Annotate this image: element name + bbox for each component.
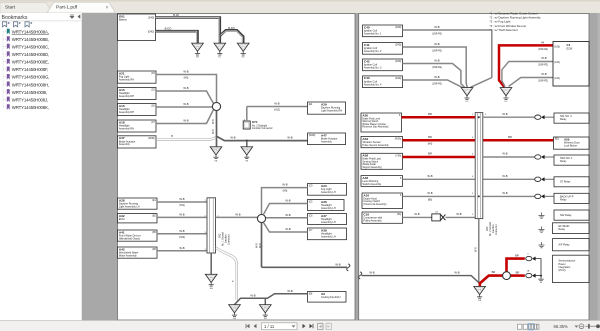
wire C41 W-B	[403, 47, 468, 87]
svg-text:Motor Assembly: Motor Assembly	[119, 254, 138, 257]
svg-text:Relay: Relay	[560, 118, 567, 121]
svg-text:B-DO: B-DO	[228, 26, 235, 30]
noise filter C8	[432, 211, 446, 221]
junction connector K74	[243, 119, 250, 129]
svg-text:W-B: W-B	[183, 102, 188, 106]
svg-text:W-B: W-B	[502, 174, 507, 178]
ground E2	[214, 43, 226, 59]
ignition coil C43	[363, 76, 403, 88]
junction circle J1	[212, 102, 220, 110]
svg-text:Relay: Relay	[559, 228, 566, 231]
svg-text:C1: C1	[567, 43, 571, 47]
svg-text:W-B: W-B	[212, 119, 215, 124]
wire conn BACKUP	[545, 195, 555, 197]
svg-text:W-B: W-B	[474, 247, 477, 252]
svg-text:W-B: W-B	[541, 72, 546, 76]
svg-text:WRTY14450H008A,: WRTY14450H008A,	[12, 29, 49, 34]
ground EC right	[461, 88, 473, 104]
fog light A20	[308, 184, 347, 196]
svg-text:W-B: W-B	[369, 270, 374, 274]
svg-text:W-B: W-B	[179, 246, 184, 250]
svg-text:W-B: W-B	[502, 112, 507, 116]
hood courtesy switch A10	[362, 193, 403, 209]
wire A38 W-B	[264, 223, 308, 232]
wire J2 to page edge	[262, 266, 348, 268]
svg-text:(H10): (H10)	[179, 236, 185, 239]
svg-text:Cooling Fan ECU: Cooling Fan ECU	[321, 296, 341, 299]
svg-text:W-B: W-B	[541, 56, 546, 60]
svg-text:W-B: W-B	[434, 59, 439, 63]
svg-text:WRTY14450H008G,: WRTY14450H008G,	[12, 75, 50, 80]
svg-text:W-B: W-B	[434, 75, 439, 79]
svg-text:Pulse Sensor Assembly: Pulse Sensor Assembly	[362, 144, 389, 147]
svg-text:(D4D): (D4D)	[395, 45, 401, 47]
junction connector bar A52 no.1	[207, 198, 216, 253]
svg-text:44: 44	[541, 40, 544, 44]
svg-text:Assembly No. 2: Assembly No. 2	[364, 50, 382, 53]
svg-text:WRTY14450H008E,: WRTY14450H008E,	[12, 60, 49, 65]
svg-text:Light Assembly LH: Light Assembly LH	[119, 205, 140, 208]
svg-text:1 / 11: 1 / 11	[264, 324, 275, 329]
svg-text:W-B: W-B	[179, 213, 184, 217]
svg-text:WRTY14450H008J,: WRTY14450H008J,	[12, 97, 48, 102]
svg-text:66.35%: 66.35%	[554, 324, 568, 329]
daytime running light A28	[118, 198, 158, 209]
svg-text:W-B: W-B	[274, 102, 279, 106]
svg-text:Bookmarks: Bookmarks	[2, 15, 28, 21]
svg-text:(1NR-FE): (1NR-FE)	[432, 50, 442, 52]
svg-text:B-30: B-30	[173, 13, 179, 17]
svg-text:(H6): (H6)	[184, 77, 189, 80]
ECM C1	[553, 42, 589, 87]
svg-text:Relay: Relay	[560, 160, 567, 163]
headlight A37	[308, 214, 347, 225]
wire ECM red 44	[499, 45, 553, 87]
connector to HAN relay	[535, 155, 545, 159]
relay S22	[554, 210, 589, 220]
ground EC ecm	[500, 88, 512, 104]
svg-text:(A20): (A20)	[554, 45, 560, 48]
svg-text:(B1): (B1)	[555, 138, 560, 140]
svg-text:A50: A50	[362, 113, 368, 117]
svg-text:(A31): (A31)	[554, 77, 560, 80]
wire A29 W-B	[247, 106, 308, 108]
ground E3	[237, 43, 249, 59]
ground E5	[241, 147, 253, 163]
svg-text:BR: BR	[516, 270, 520, 274]
wire C40 W-B	[403, 30, 492, 87]
svg-text:WRTY14450H008K,: WRTY14450H008K,	[12, 105, 49, 110]
wire W-B from left page	[362, 276, 480, 284]
svg-text:(D4D): (D4D)	[395, 78, 401, 80]
wire C42 W-B	[403, 64, 465, 88]
wire A15 W-B	[156, 91, 213, 103]
sensor A53	[361, 137, 403, 148]
svg-text:A10: A10	[363, 193, 369, 197]
svg-text:WRTY14450H008H,: WRTY14450H008H,	[12, 82, 49, 87]
svg-text:ECM: ECM	[567, 47, 573, 50]
svg-text:ST Relay: ST Relay	[560, 181, 571, 184]
headlight A38	[308, 228, 347, 240]
ground E8	[260, 305, 272, 321]
wire battery B-30 to ground E2	[156, 18, 220, 44]
battery G01	[118, 14, 156, 41]
connector top red	[526, 256, 536, 260]
svg-text:W-B: W-B	[502, 152, 507, 156]
svg-text:(D4D): (D4D)	[148, 31, 154, 33]
connector to BACKUP relay	[535, 194, 545, 198]
ignition coil C40	[363, 25, 403, 37]
svg-text:W-B: W-B	[434, 42, 439, 46]
connector to S21 relay	[535, 115, 545, 119]
svg-text:BR: BR	[428, 135, 432, 139]
wire C43 W-B	[403, 80, 463, 87]
svg-text:Start: Start	[5, 5, 16, 11]
svg-text:Assembly RH: Assembly RH	[119, 111, 134, 114]
wire A36 W-B	[264, 204, 308, 215]
svg-text:Brake Pedal Load: Brake Pedal Load	[362, 158, 381, 161]
shield wire A47 b	[156, 138, 216, 140]
wire thin down	[540, 276, 542, 280]
ignition coil C41	[363, 43, 403, 55]
connector right red	[526, 273, 536, 277]
wire battery B-DO to ground E1	[156, 31, 198, 43]
svg-text:Reservoir Sub-Assembly): Reservoir Sub-Assembly)	[362, 126, 388, 129]
wire ECM W-B 1	[502, 62, 553, 87]
junction dot bar A50	[478, 116, 480, 118]
svg-text:A52: A52	[486, 226, 489, 231]
wire A58 red	[403, 156, 476, 159]
svg-text:(D4D): (D4D)	[395, 61, 401, 63]
wire conn ST	[545, 178, 555, 180]
svg-text:A/F Relay: A/F Relay	[559, 243, 571, 246]
chassis ground AF	[539, 242, 545, 248]
wire A20 W-B	[262, 188, 308, 215]
junction dot thin	[540, 275, 542, 277]
svg-text:Switch Assembly: Switch Assembly	[362, 183, 382, 186]
svg-text:(B6): (B6)	[428, 200, 433, 202]
shield wire A47 a	[156, 137, 216, 139]
wire A28 W-B	[157, 201, 207, 203]
wire drop to ground E8	[264, 298, 266, 304]
svg-text:W-B: W-B	[259, 243, 262, 248]
wire A18 W-B	[156, 110, 213, 124]
wire A53 red through	[403, 139, 554, 142]
wire red left branch	[480, 276, 503, 287]
junction dot K74 drop	[246, 140, 248, 142]
wire A41 W-B	[157, 233, 207, 235]
brake actuator A47 right	[308, 133, 346, 145]
wire battery branch to ground E3	[220, 30, 243, 43]
svg-text:(H11): (H11)	[179, 204, 185, 207]
svg-text:S22 Relay: S22 Relay	[560, 214, 572, 217]
svg-text:(A31): (A31)	[554, 61, 560, 64]
svg-text:(W4D): (W4D)	[309, 135, 316, 137]
svg-text:A52: A52	[219, 233, 222, 238]
svg-text:WRTY14450H008I,: WRTY14450H008I,	[12, 90, 47, 95]
wire cooling fan W-B	[234, 294, 307, 305]
svg-text:Assembly RH: Assembly RH	[119, 95, 134, 98]
svg-text:W-B: W-B	[183, 70, 188, 74]
svg-text:(1NR-FE): (1NR-FE)	[538, 65, 548, 67]
svg-text:(PCU): (PCU)	[559, 269, 566, 272]
svg-text:Brake Fluid Level: Brake Fluid Level	[362, 117, 380, 120]
svg-text:Courtesy Switch: Courtesy Switch	[363, 200, 380, 203]
svg-text:WRTY14450H008B,: WRTY14450H008B,	[12, 37, 49, 42]
svg-text:W-B: W-B	[183, 119, 188, 123]
svg-text:Engine Hood: Engine Hood	[363, 198, 377, 200]
svg-text:Assembly RH: Assembly RH	[119, 78, 134, 81]
wire bar to J2	[216, 216, 259, 218]
svg-text:W-B: W-B	[282, 183, 287, 187]
svg-text:(H8): (H8)	[283, 190, 288, 193]
wire conn S21	[545, 116, 555, 118]
svg-text:W-B: W-B	[285, 227, 290, 231]
wire C16 W-B b	[445, 216, 475, 218]
svg-text:W-B: W-B	[434, 25, 439, 29]
ignition coil C42	[363, 59, 403, 71]
svg-text:W-B: W-B	[454, 270, 459, 274]
notes block	[490, 12, 542, 32]
wire K74 to ground E5	[246, 141, 248, 147]
svg-text:(Brake Master Cylinder: (Brake Master Cylinder	[362, 123, 386, 126]
svg-text:W-B: W-B	[335, 262, 340, 266]
junction circle J3	[503, 272, 511, 280]
svg-text:W-B: W-B	[230, 135, 235, 139]
svg-text:(1NR-FE): (1NR-FE)	[538, 81, 548, 83]
svg-text:(1NR-FE): (1NR-FE)	[432, 67, 442, 69]
wiper de-icer A41	[118, 230, 158, 241]
wire ECM W-B 2	[509, 78, 553, 87]
svg-text:W-B: W-B	[502, 191, 507, 195]
level warning switch A48	[361, 176, 403, 187]
daytime running light A29	[308, 102, 346, 114]
svg-text:BR: BR	[428, 152, 432, 156]
svg-text:Assembly: Assembly	[119, 143, 131, 146]
wire bar right A50	[483, 116, 535, 118]
svg-text:W-B: W-B	[179, 229, 184, 233]
svg-text:Light Assembly RH: Light Assembly RH	[321, 109, 342, 112]
svg-text:ECM: ECM	[119, 218, 125, 221]
svg-text:BR: BR	[508, 135, 512, 139]
svg-text:W-B: W-B	[285, 199, 290, 203]
svg-text:Assembly LH: Assembly LH	[321, 235, 336, 238]
connector to ST relay	[535, 177, 545, 181]
brake pedal load switch A58	[361, 153, 403, 169]
svg-text:W-B: W-B	[179, 197, 184, 201]
chassis ground bottom	[538, 279, 544, 282]
svg-text:W-B: W-B	[183, 86, 188, 90]
svg-text:A58: A58	[362, 154, 368, 158]
svg-text:Junction Connector: Junction Connector	[252, 127, 273, 130]
relay BACKUP	[554, 193, 589, 203]
svg-text:Assembly LH: Assembly LH	[321, 221, 336, 224]
svg-text:Warning Switch: Warning Switch	[362, 120, 379, 123]
svg-text:W-B: W-B	[456, 212, 461, 216]
svg-text:Assembly No. 4: Assembly No. 4	[364, 83, 382, 86]
svg-text:(Windshield Glass): (Windshield Glass)	[119, 237, 140, 240]
svg-text:(1NR-FE): (1NR-FE)	[432, 33, 442, 35]
wire red top branch	[507, 259, 525, 272]
svg-text:×: ×	[106, 5, 109, 11]
headlight A15	[118, 88, 157, 100]
svg-text:(1NR-FE): (1NR-FE)	[538, 49, 548, 51]
svg-text:Part-1.pdf: Part-1.pdf	[56, 5, 78, 11]
svg-text:Connector: Connector	[228, 234, 231, 245]
ground E7	[229, 305, 241, 321]
svg-text:(Hood Lock Assembly): (Hood Lock Assembly)	[363, 203, 386, 206]
ground bottom right	[474, 286, 486, 302]
svg-text:W-B: W-B	[287, 135, 292, 139]
wire A48 W-B	[403, 178, 535, 180]
svg-text:BR: BR	[492, 270, 496, 274]
relay EFI MAIN	[553, 223, 590, 234]
svg-text:Junction: Junction	[492, 224, 495, 233]
ground E6	[205, 274, 217, 290]
headlight A36	[308, 200, 345, 211]
wire A32 W-B	[157, 216, 207, 218]
shield wire pair a	[216, 247, 238, 305]
wire A16 W-B	[156, 106, 212, 108]
ECM A32	[118, 214, 158, 223]
wire J1 down	[216, 111, 218, 138]
relay HAN	[554, 155, 589, 165]
door lock buster A59	[554, 137, 590, 149]
wire bar down	[478, 219, 480, 284]
wire thin top	[536, 259, 541, 276]
wiper motor A42	[118, 247, 158, 258]
wire A10 W-B	[403, 195, 535, 197]
svg-text:Assembly RH: Assembly RH	[119, 127, 134, 130]
svg-text:(5A): (5A)	[397, 213, 402, 216]
svg-text:W-B: W-B	[427, 174, 432, 178]
junction dot bar A10	[478, 195, 480, 197]
ground E4	[210, 147, 222, 163]
svg-text:WRTY14450H008F,: WRTY14450H008F,	[12, 67, 48, 72]
wire break symbol right page	[359, 272, 362, 279]
svg-text:BR: BR	[428, 112, 432, 116]
wire split to ground E4	[216, 137, 218, 147]
compressor C16	[362, 212, 403, 223]
svg-text:W-B: W-B	[285, 213, 290, 217]
svg-text:Assembly LH: Assembly LH	[321, 207, 336, 210]
svg-text:Assembly LH: Assembly LH	[321, 191, 336, 194]
svg-text:Assembly No. 3: Assembly No. 3	[364, 66, 382, 69]
cooling fan ECU A6	[308, 292, 347, 303]
svg-text:(W2A): (W2A)	[395, 138, 402, 141]
svg-text:Pulley Assembly: Pulley Assembly	[363, 219, 382, 222]
svg-text:(D4D): (D4D)	[395, 27, 401, 29]
wire C16 W-B a	[403, 216, 432, 218]
svg-text:Connector: Connector	[495, 224, 498, 235]
semiconductor power integration	[553, 255, 590, 282]
wire J2 down	[261, 223, 263, 268]
brake fluid level switch A50	[361, 113, 402, 132]
svg-text:B-DO: B-DO	[165, 26, 172, 30]
wire K74 up	[246, 107, 248, 122]
brake actuator A47 left	[118, 136, 157, 148]
wire A21 W-B	[156, 75, 217, 103]
svg-text:Sensing Switch: Sensing Switch	[362, 160, 378, 163]
svg-text:(H12): (H12)	[274, 109, 280, 112]
svg-text:W-B: W-B	[235, 213, 240, 217]
svg-text:No. 1 Ground: No. 1 Ground	[222, 231, 225, 246]
junction connector bar A52 no.2	[475, 113, 483, 219]
svg-text:WRTY14450H008D,: WRTY14450H008D,	[12, 52, 49, 57]
headlight A18	[118, 120, 157, 132]
svg-text:(Brake Pedal: (Brake Pedal	[362, 163, 376, 166]
wire bar down to ground	[210, 253, 212, 274]
svg-text:(D4D): (D4D)	[148, 17, 154, 19]
svg-text:Lock Buster: Lock Buster	[564, 144, 577, 147]
svg-text:WRTY14450H008C,: WRTY14450H008C,	[12, 45, 49, 50]
svg-text:Battery: Battery	[119, 18, 128, 21]
chassis ground S22	[539, 213, 545, 219]
svg-text:No. 2 Ground: No. 2 Ground	[489, 221, 492, 236]
wire red right branch	[510, 274, 524, 277]
svg-text:Junction: Junction	[225, 234, 228, 243]
wire A37 W-B	[266, 217, 308, 219]
wire bar right A58	[483, 156, 535, 158]
wire A42 W-B	[157, 250, 207, 252]
wire to A47 right	[217, 136, 308, 140]
svg-text:W-B: W-B	[250, 293, 255, 297]
headlight A16	[118, 104, 157, 116]
svg-text:(Y5A): (Y5A)	[395, 155, 401, 158]
wire A50 red	[402, 116, 476, 119]
svg-text:(1NR-FE): (1NR-FE)	[432, 83, 442, 85]
svg-text:W-B: W-B	[414, 212, 419, 216]
svg-text:Relay: Relay	[560, 198, 567, 201]
svg-text:W-B: W-B	[427, 191, 432, 195]
ground E1	[192, 43, 204, 59]
wire conn HAN	[545, 156, 555, 158]
svg-text:BR: BR	[515, 253, 519, 257]
svg-text:W-B: W-B	[212, 129, 215, 134]
svg-text:(H6): (H6)	[428, 143, 433, 145]
svg-text:Assembly: Assembly	[321, 140, 333, 143]
svg-text:(W4D): (W4D)	[148, 138, 155, 140]
svg-text:W-B: W-B	[287, 289, 292, 293]
svg-text:Support Assembly): Support Assembly)	[362, 166, 382, 169]
junction circle J2	[257, 214, 265, 222]
relay ST	[554, 177, 589, 187]
fog light A21	[118, 71, 157, 83]
relay AF	[553, 239, 590, 251]
svg-text:*5 : w/ Theft Deterrent: *5 : w/ Theft Deterrent	[490, 28, 518, 32]
wire thin right	[536, 275, 541, 277]
shield wire pair b	[216, 249, 236, 300]
relay S21	[554, 113, 589, 123]
wire break symbol left page	[347, 264, 350, 271]
svg-text:Assembly No. 1: Assembly No. 1	[364, 32, 382, 35]
chassis ground EFI	[539, 227, 545, 233]
